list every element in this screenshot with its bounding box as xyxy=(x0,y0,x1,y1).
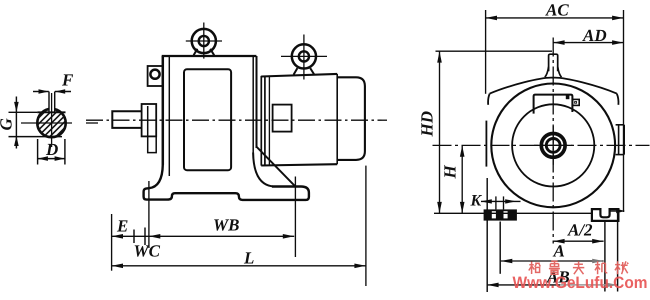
dim ticks xyxy=(133,230,135,244)
gearbox eyebolt xyxy=(186,23,222,59)
svg-text:E: E xyxy=(116,217,128,236)
right base arrow xyxy=(610,210,618,212)
dim E/WC/WB line xyxy=(112,235,295,237)
motor front rib xyxy=(268,76,270,165)
svg-text:HD: HD xyxy=(418,111,437,138)
right side lug xyxy=(616,125,625,155)
dim AB extension lines xyxy=(486,178,488,292)
base outline xyxy=(144,165,309,200)
svg-text:H: H xyxy=(441,165,460,180)
watermark chinese characters xyxy=(529,261,628,274)
motor flange xyxy=(260,76,262,166)
section horizontal centerline xyxy=(21,122,72,124)
svg-text:K: K xyxy=(470,193,483,210)
dim A line xyxy=(501,260,604,262)
dimension F arrows xyxy=(39,89,49,94)
motor eyebolt xyxy=(281,35,327,80)
gearbox body left edge xyxy=(162,56,165,165)
oil plug circle xyxy=(150,70,159,79)
motor frame seam xyxy=(336,74,338,164)
svg-text:AC: AC xyxy=(545,1,569,20)
peg flare base xyxy=(545,67,562,77)
dimension D extension lines xyxy=(37,139,39,165)
horizontal centerline xyxy=(433,144,650,146)
dimension D arrows xyxy=(38,156,48,161)
svg-text:A/2: A/2 xyxy=(567,221,593,240)
svg-text:L: L xyxy=(243,249,254,268)
char ji xyxy=(595,261,607,274)
svg-text:Www.GeLufu.Com: Www.GeLufu.Com xyxy=(513,274,648,292)
left side lug xyxy=(485,121,487,167)
output shaft xyxy=(112,111,142,128)
dim HD line xyxy=(439,51,441,213)
dim AB line xyxy=(487,284,560,286)
dim H line xyxy=(461,145,463,213)
stator circle xyxy=(512,104,594,186)
left foot (with bolt in slot) xyxy=(484,209,517,220)
HD top extension xyxy=(436,50,553,52)
dim K arrows xyxy=(481,200,521,202)
svg-text:A: A xyxy=(553,242,565,261)
motor nameplate xyxy=(273,105,292,132)
shaft bearing boss xyxy=(142,104,157,136)
gearbox inner wall line xyxy=(168,57,170,176)
top peg xyxy=(549,54,558,71)
gearbox top edge xyxy=(162,55,257,57)
terminal box mark xyxy=(566,95,570,99)
hatching xyxy=(20,91,84,155)
gearbox right edge lines xyxy=(252,56,254,153)
outer housing circle xyxy=(491,83,615,207)
dim arrows xyxy=(112,234,123,239)
main centerline xyxy=(86,119,387,121)
lower boss step xyxy=(148,106,157,153)
svg-text:F: F xyxy=(61,71,74,90)
terminal box xyxy=(534,95,573,114)
hub rings xyxy=(541,134,565,158)
cowl seam right xyxy=(553,78,618,105)
cowl seam left xyxy=(488,78,553,105)
section vertical centerline xyxy=(51,93,53,147)
left foot bolt extension lines (K) xyxy=(495,196,497,209)
dim AC extension lines xyxy=(485,10,487,94)
keyway notch white xyxy=(49,107,55,113)
vertical centerline xyxy=(552,38,554,244)
support rib diagonal xyxy=(257,147,296,187)
base fillet arc xyxy=(253,153,272,187)
right foot xyxy=(592,209,619,221)
svg-text:WC: WC xyxy=(134,242,161,261)
dim A extension lines xyxy=(499,222,501,274)
char xie xyxy=(615,261,628,274)
hub crosshair solid segments xyxy=(534,144,573,146)
char lu xyxy=(549,261,560,274)
char ge xyxy=(529,262,541,275)
motor bottom edge xyxy=(261,164,337,165)
terminal box tab xyxy=(572,99,579,105)
keyway side lines + extensions up xyxy=(48,92,50,113)
dimension G arrows xyxy=(14,102,19,112)
dim A/2 line xyxy=(553,240,603,242)
dim L right extension xyxy=(365,166,367,286)
shaft section circle xyxy=(37,109,65,137)
keyway flat chord xyxy=(37,111,65,113)
dim AD line xyxy=(553,42,623,44)
dimension F line xyxy=(33,91,49,93)
dim E/WC/WB extension lines xyxy=(111,214,113,271)
svg-text:WB: WB xyxy=(213,216,239,235)
dimension G line xyxy=(15,97,17,149)
motor end bell xyxy=(337,77,365,160)
svg-text:D: D xyxy=(45,140,58,159)
gearbox inspection panel xyxy=(184,69,231,170)
svg-text:AD: AD xyxy=(582,26,607,45)
svg-text:G: G xyxy=(0,118,16,131)
dim L line xyxy=(112,265,366,267)
dim AC line xyxy=(486,17,624,19)
dimension G extension lines xyxy=(9,111,38,113)
dimension D line xyxy=(38,158,65,160)
char fu xyxy=(573,261,584,274)
baseline xyxy=(434,212,592,214)
motor top edge xyxy=(261,74,337,77)
oil plug box xyxy=(148,66,163,86)
